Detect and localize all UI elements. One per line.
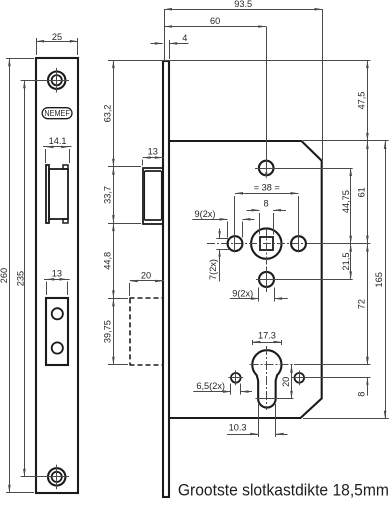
svg-text:60: 60 <box>210 16 220 26</box>
fixing hole top <box>255 161 278 176</box>
dim 8 square <box>247 198 287 211</box>
fixing hole top center ext to dims <box>278 168 353 170</box>
dim 38 <box>235 183 299 195</box>
svg-text:39,75: 39,75 <box>103 320 113 343</box>
screw hole bottom (crosshair) <box>44 465 69 490</box>
dim 60 right ext with arrow <box>265 27 267 180</box>
dim 20 deadbolt throw <box>130 271 164 283</box>
label 7(2x) <box>208 259 218 280</box>
label 9(2x) bottom <box>230 288 259 300</box>
dim 61 <box>357 141 369 244</box>
cylinder center ext to dims <box>294 364 370 366</box>
hole left 9mm <box>228 236 243 251</box>
dim 25 extension lines <box>37 38 78 55</box>
dim 13 deadbolt <box>44 268 70 280</box>
dim 44,75 <box>341 168 352 244</box>
svg-text:20: 20 <box>141 271 151 281</box>
svg-text:10.3: 10.3 <box>229 422 247 432</box>
chain ext y166.7 <box>108 166 141 168</box>
deadbolt opening <box>46 298 68 365</box>
hub centerline ext to dims <box>310 243 370 245</box>
dim 72 <box>357 244 369 365</box>
latch opening bottom notch <box>63 219 68 223</box>
dim 93.5 right ext line <box>322 9 324 160</box>
svg-text:72: 72 <box>357 299 367 309</box>
label 9(2x) top <box>192 209 227 221</box>
hub vertical centerline below <box>266 229 268 293</box>
latch bolt side view inner <box>145 171 162 220</box>
dim 33,7 <box>103 167 115 223</box>
dim 6.5 right arrow <box>241 390 252 393</box>
dim 260 <box>0 58 11 493</box>
dim 13 latch extension line <box>142 160 144 166</box>
svg-text:13: 13 <box>148 147 158 157</box>
dim 260 extension lines <box>6 59 34 493</box>
svg-text:4: 4 <box>182 33 187 43</box>
dim 20 euro <box>281 365 293 399</box>
latch opening top notch <box>63 165 68 169</box>
dim 38 ext lines <box>235 196 299 253</box>
svg-text:9(2x): 9(2x) <box>195 209 216 219</box>
case top ext line right <box>303 140 389 142</box>
case bottom ext line right <box>303 418 389 420</box>
svg-text:235: 235 <box>15 271 25 286</box>
dim 14.1 extension lines <box>46 149 70 163</box>
hub square 8mm <box>260 237 273 250</box>
dim 63,2 <box>103 60 115 167</box>
side hole 6.5 right <box>292 370 307 385</box>
hole lower 9mm <box>256 268 277 291</box>
hole right 9mm <box>291 236 306 251</box>
deadbolt pin hole lower <box>52 342 63 353</box>
svg-text:63,2: 63,2 <box>103 104 113 122</box>
dim 14.1 <box>43 136 72 148</box>
cylinder horizontal centerline <box>250 364 295 366</box>
deadbolt pin hole upper <box>52 308 63 319</box>
dim 9 bottom ext lines <box>259 288 275 302</box>
svg-text:= 38 =: = 38 = <box>254 183 280 193</box>
chain dim extension line top (y60) <box>108 60 370 62</box>
dim 20 deadbolt throw ext line <box>129 283 131 296</box>
svg-text:93.5: 93.5 <box>234 0 252 9</box>
deadbolt thrown (dashed) <box>130 298 164 365</box>
svg-text:260: 260 <box>0 268 9 283</box>
dim 235 <box>15 80 25 477</box>
latch bolt side view outer <box>143 168 163 224</box>
svg-text:47,5: 47,5 <box>357 92 367 110</box>
dim 93.5 <box>164 0 322 11</box>
svg-text:7(2x): 7(2x) <box>208 259 218 280</box>
svg-text:20: 20 <box>281 377 291 387</box>
dim 60 <box>164 16 266 28</box>
dim 9 bottom right arrow <box>274 297 288 300</box>
svg-text:14.1: 14.1 <box>49 136 67 146</box>
dim 9 top ext lines <box>228 222 243 238</box>
svg-text:9(2x): 9(2x) <box>232 288 253 298</box>
dim 165 <box>374 141 387 419</box>
svg-text:Grootste slotkastdikte 18,5mm: Grootste slotkastdikte 18,5mm <box>178 482 389 500</box>
svg-text:21,5: 21,5 <box>341 253 351 271</box>
dim 17.3 <box>252 331 281 344</box>
svg-text:NEMEF: NEMEF <box>44 108 70 118</box>
latch opening main <box>49 169 68 219</box>
euro cylinder profile <box>252 350 281 407</box>
dim 6.5 ext lines <box>231 384 241 395</box>
svg-text:25: 25 <box>52 32 62 42</box>
hub follower circle <box>251 228 281 258</box>
dim 4 label <box>182 33 187 43</box>
dim 39,75 <box>103 298 115 364</box>
svg-text:6,5(2x): 6,5(2x) <box>196 381 225 391</box>
chain ext y298.4 <box>108 298 128 300</box>
svg-text:61: 61 <box>357 187 367 197</box>
dim 10.3 ext lines <box>259 404 276 437</box>
lock case outline <box>169 141 322 418</box>
dim 13 latch <box>143 147 164 159</box>
dim 47,5 <box>357 60 369 141</box>
chain ext y364.8 <box>108 364 128 366</box>
dim 7 arrows <box>218 229 220 282</box>
svg-text:17.3: 17.3 <box>258 331 276 341</box>
label 6,5(2x) <box>193 381 231 393</box>
dim 4 extension line <box>169 40 171 59</box>
svg-text:44,8: 44,8 <box>103 252 113 270</box>
dim 25 <box>36 32 78 43</box>
chain ext y223.1 <box>108 223 141 225</box>
dim 8 square ext lines <box>260 213 274 235</box>
hole lower center ext <box>275 279 353 281</box>
dim 4 arrows <box>151 42 189 45</box>
dim 235 extension lines <box>21 81 52 477</box>
latch opening front strip <box>46 165 49 223</box>
dim 44,8 <box>103 223 115 298</box>
dim 9 top right arrow <box>242 218 254 221</box>
faceplate edge (side view) bar <box>163 61 169 497</box>
side hole right center ext <box>307 377 371 379</box>
svg-text:33,7: 33,7 <box>103 186 113 204</box>
dim 8 side holes <box>357 356 369 397</box>
svg-text:13: 13 <box>52 268 62 278</box>
dim 21,5 <box>341 244 352 280</box>
hub horizontal centerline <box>207 243 310 245</box>
cylinder vertical centerline <box>266 346 268 410</box>
svg-text:165: 165 <box>374 272 384 287</box>
dim 93.5 left ext line <box>164 9 166 61</box>
svg-text:8: 8 <box>263 198 268 208</box>
dim 17.3 ext lines <box>253 340 282 345</box>
side hole 6.5 left <box>228 370 243 385</box>
dim 13 deadbolt extension lines <box>47 282 68 296</box>
faceplate front view outline <box>36 58 78 493</box>
dim 7 ext lines <box>216 239 230 250</box>
screw hole top (crosshair) <box>44 68 69 93</box>
dim 10.3 <box>227 422 288 435</box>
cylinder bottom center ext <box>256 398 294 400</box>
caption text <box>178 482 389 500</box>
svg-text:44,75: 44,75 <box>341 190 351 213</box>
svg-text:8: 8 <box>357 392 367 397</box>
NEMEF logo <box>42 108 72 119</box>
